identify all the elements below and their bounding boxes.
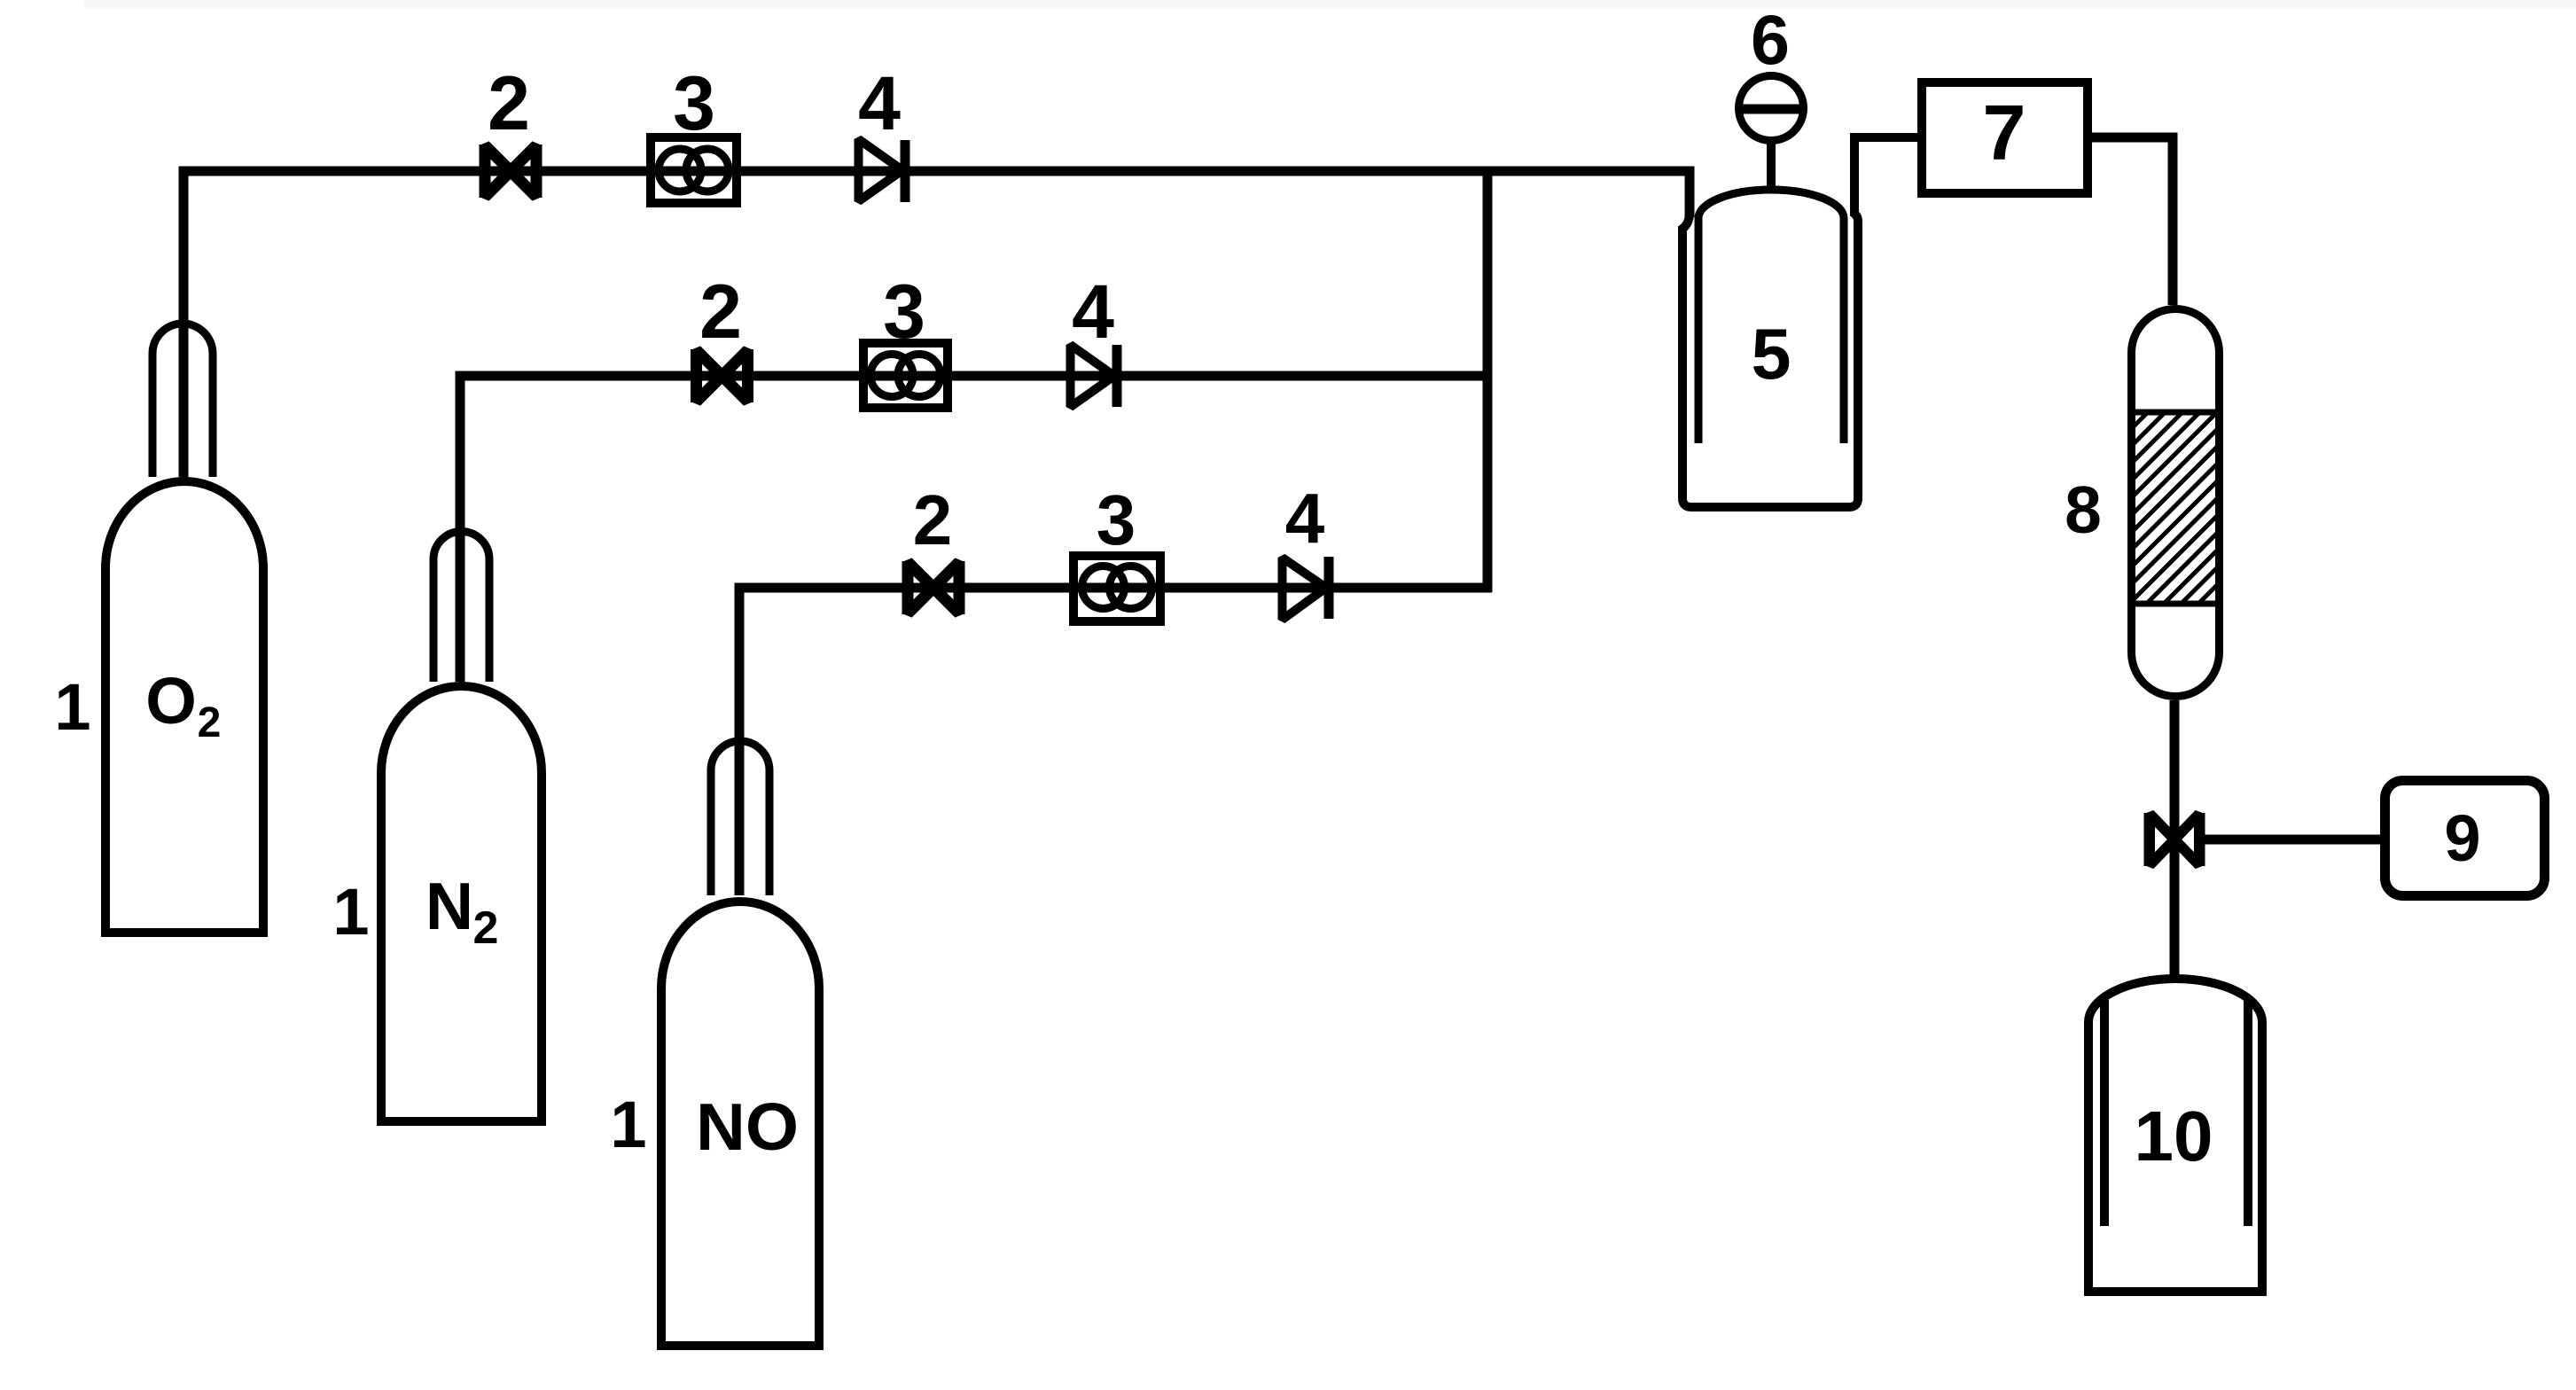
column 8 shell (2132, 309, 2220, 697)
svg-text:1: 1 (54, 670, 90, 744)
wire O2 line to vessel 5 (183, 171, 1690, 477)
box 7 (1922, 82, 2088, 193)
svg-text:8: 8 (2065, 472, 2102, 547)
top gray band (84, 0, 2576, 8)
cylinder 1 N2 neck (433, 532, 489, 682)
flow meter 3 (NO line) (1073, 556, 1160, 621)
svg-text:O: O (145, 664, 197, 738)
wire valve to box 9 (2205, 835, 2380, 845)
svg-text:5: 5 (1751, 315, 1791, 394)
cylinder 1 O2 neck (152, 324, 213, 477)
gauge 6 stem (1767, 140, 1776, 190)
check valve 4 (NO line) (1283, 557, 1330, 620)
wire manifold vertical (1483, 167, 1493, 592)
svg-text:2: 2 (699, 269, 742, 355)
check valve 4 (O2 line) (859, 139, 906, 202)
svg-text:3: 3 (883, 269, 925, 355)
vessel 10 inner tube right wall (2244, 1000, 2252, 1226)
svg-text:2: 2 (473, 902, 499, 954)
svg-text:7: 7 (1983, 89, 2026, 176)
gauge 6 (1739, 76, 1804, 141)
wire NO line to manifold (739, 588, 1492, 895)
column 8 packing borders (2132, 412, 2219, 604)
svg-text:6: 6 (1751, 0, 1790, 79)
valve 2 (NO line) (908, 561, 960, 614)
svg-text:4: 4 (858, 61, 901, 146)
valve 2 (N2 line) (696, 349, 748, 402)
valve 2 (O2 line) (485, 144, 537, 198)
vessel 10 inner tube left wall (2100, 1000, 2109, 1226)
wire N2 line to manifold (460, 376, 1492, 682)
svg-text:N: N (425, 869, 473, 943)
svg-text:10: 10 (2135, 1097, 2213, 1175)
svg-text:2: 2 (913, 480, 953, 559)
cylinder 1 N2 body (381, 686, 542, 1121)
vessel 10 outer wall (2088, 979, 2262, 1292)
svg-text:3: 3 (1097, 480, 1136, 559)
check valve 4 (N2 line) (1071, 345, 1118, 407)
column 8 packing hatch (1955, 410, 2409, 605)
valve (between 8 and 10) (2150, 813, 2200, 866)
svg-text:NO: NO (696, 1089, 799, 1164)
svg-text:4: 4 (1072, 269, 1114, 355)
svg-text:3: 3 (673, 61, 715, 146)
vessel 5 inner tube (1698, 190, 1844, 443)
cylinder 1 O2 body (105, 481, 263, 933)
wire column 8 to vessel 10 (2170, 700, 2180, 976)
svg-text:2: 2 (198, 699, 222, 746)
svg-text:1: 1 (610, 1088, 646, 1161)
flow meter 3 (N2 line) (863, 343, 948, 408)
cylinder 1 NO body (661, 902, 819, 1346)
svg-text:4: 4 (1285, 479, 1325, 558)
box 9 (2385, 781, 2545, 896)
cylinder 1 NO neck (711, 741, 769, 895)
flow meter 3 (O2 line) (651, 137, 737, 203)
vessel 5 outer wall with inlet and outlet pipes (1682, 137, 1917, 507)
wire box 7 to column 8 (2092, 137, 2173, 305)
svg-text:9: 9 (2444, 801, 2480, 875)
svg-text:1: 1 (332, 875, 369, 949)
svg-text:2: 2 (488, 61, 530, 146)
